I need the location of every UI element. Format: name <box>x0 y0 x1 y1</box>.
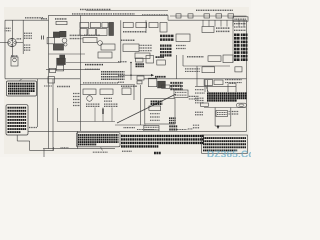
diode VD851 <box>204 14 210 18</box>
label N/C接地 <box>124 127 136 129</box>
block audio header <box>233 17 248 21</box>
wire <box>111 108 113 122</box>
label flyback pin <box>113 13 135 15</box>
label 主板线 <box>188 128 193 130</box>
callout3 dense note <box>207 92 247 94</box>
block dark4 <box>158 81 166 88</box>
block output pin list dark stack <box>234 33 248 36</box>
wire <box>43 149 45 157</box>
label 消亮点电路 <box>229 110 239 112</box>
comb pin strokes <box>202 20 204 26</box>
label 30 <box>118 81 124 83</box>
wire top-right bus <box>168 19 247 21</box>
scan interior tint <box>4 7 249 154</box>
transistor V201 <box>98 41 103 46</box>
callout1 box <box>6 81 36 96</box>
wire <box>30 150 54 152</box>
label flyback T444 <box>187 56 204 58</box>
block <box>172 85 181 89</box>
label C003 <box>29 127 38 129</box>
block integrator <box>136 58 144 62</box>
wire chroma section top <box>80 84 135 86</box>
label C004 values <box>24 32 32 34</box>
label <box>104 97 112 99</box>
block ABL <box>214 80 223 85</box>
capacitor C850 <box>188 14 193 18</box>
label switch transformer T001 <box>70 34 83 36</box>
block dark label <box>156 56 165 58</box>
wire <box>94 108 96 122</box>
ground <box>217 126 220 129</box>
capacitor C417 <box>137 81 142 84</box>
block snubber dark <box>53 32 59 38</box>
block S-correction <box>148 78 156 87</box>
callout2 dense text <box>8 107 27 109</box>
wire <box>76 131 78 148</box>
wire pointer <box>206 87 208 93</box>
block C416b <box>137 76 144 80</box>
block sync sep <box>149 22 158 27</box>
label pin column <box>73 93 80 95</box>
block tuner2 <box>80 29 87 36</box>
label 去偏转 <box>193 124 200 126</box>
label ~220V 50Hz <box>5 27 11 29</box>
block H-osc <box>160 22 167 32</box>
block delay line <box>135 53 150 59</box>
stack column gap <box>240 33 242 62</box>
block IF2 <box>88 29 95 36</box>
block C amp <box>100 89 113 95</box>
capacitor C006 <box>41 36 43 40</box>
block opto dark <box>53 44 63 50</box>
label 输入射频 <box>121 39 135 41</box>
wire supply chain <box>170 15 247 17</box>
label secondary switching supply <box>196 9 233 11</box>
block comb filter <box>123 44 139 52</box>
transistor V301 <box>87 96 93 102</box>
block N601 LA7840 dark <box>151 100 163 102</box>
wire inductor hook <box>53 147 55 151</box>
block video driver <box>101 44 115 50</box>
block IC001 error amp <box>47 38 55 44</box>
diode VD852 <box>216 14 222 18</box>
wire paragraphA pointer <box>101 147 103 151</box>
label left small <box>61 147 70 149</box>
block socket <box>201 103 209 106</box>
transistor V001 <box>62 38 67 43</box>
block SAW <box>102 22 108 27</box>
label <box>57 86 70 88</box>
label C005 values <box>24 44 31 46</box>
wire <box>196 66 198 86</box>
label video board <box>195 97 204 99</box>
label pins <box>145 126 159 128</box>
paragraphC box <box>202 135 248 153</box>
block dark2 <box>60 31 66 37</box>
wire <box>17 140 30 142</box>
wire <box>145 20 147 33</box>
block blanking <box>83 38 97 43</box>
wire vertical main left rail <box>48 15 50 131</box>
wire bottom border <box>28 130 247 132</box>
label <box>86 103 100 105</box>
wire long bottom bus <box>43 148 115 150</box>
block dark3 <box>60 55 65 61</box>
block CRT filament <box>216 111 228 117</box>
wire secondary bus <box>46 68 100 70</box>
wire <box>57 108 59 122</box>
wire <box>227 84 229 92</box>
wire rectified out <box>16 42 23 44</box>
block filter <box>57 65 64 71</box>
label <box>175 91 187 93</box>
block speech IC <box>174 90 188 98</box>
wire vertical rail x121 <box>120 20 122 62</box>
wire arrow line <box>124 74 151 76</box>
label <box>84 34 100 36</box>
label C304 <box>121 85 137 87</box>
block pin table <box>144 126 159 131</box>
wire <box>206 80 208 92</box>
wire ground bus <box>115 124 146 126</box>
label <box>177 129 187 131</box>
block dark text 积分 <box>136 63 145 65</box>
block CPU pins dark stack <box>160 45 172 47</box>
wire <box>52 79 54 151</box>
block AFT <box>136 22 147 27</box>
wire bottom bus <box>58 121 116 123</box>
capacitor C853 <box>228 14 234 18</box>
block <box>162 85 170 88</box>
block Y amp <box>83 89 96 95</box>
block dark stack <box>169 125 178 127</box>
callout2 box <box>6 105 28 135</box>
wire vertical rail x80 <box>79 15 81 131</box>
svg-text:DZ365.CoM: DZ365.CoM <box>207 150 251 158</box>
block video amp dark <box>109 22 114 35</box>
wire mains vertical <box>11 20 13 57</box>
block N601 vertical section <box>145 99 175 125</box>
label values <box>140 44 153 46</box>
block N401 vertical IC <box>170 82 183 84</box>
label deflection coil <box>185 68 200 70</box>
label 24V <box>41 18 47 20</box>
wire diagonal to CRT board <box>117 94 176 123</box>
label C004 <box>17 38 22 40</box>
wire <box>167 15 169 20</box>
wire <box>235 84 237 92</box>
label TDA8362N3 pin16 <box>72 13 112 15</box>
wire top border of power box <box>49 14 169 16</box>
label <box>44 85 52 87</box>
block degauss relay <box>202 27 214 33</box>
block <box>149 106 161 110</box>
label fuse <box>11 55 18 57</box>
label TDA8362N3 pin40 <box>142 14 168 16</box>
wire <box>22 20 24 54</box>
wire right border <box>246 20 248 131</box>
block video det <box>97 29 108 36</box>
block filter2 <box>157 60 166 65</box>
block EEPROM <box>176 34 190 42</box>
label pin40 <box>118 61 127 63</box>
label mid <box>123 31 146 33</box>
paragraphA box <box>76 133 120 147</box>
arrowhead <box>151 74 154 77</box>
block chroma <box>98 52 112 58</box>
label <box>104 103 118 105</box>
wire deflection bus <box>183 65 230 67</box>
label comps <box>150 113 160 115</box>
wire top-left bus <box>5 19 49 21</box>
label below A <box>93 151 108 153</box>
wire callout1 pointer <box>19 79 22 81</box>
label +B110V <box>195 89 204 91</box>
label header text <box>235 18 247 20</box>
block dark bits <box>169 117 176 119</box>
wire X-ray protect line <box>86 10 168 12</box>
block jungle dark rows <box>160 35 174 38</box>
label relay text <box>216 27 230 29</box>
wire long bus left part <box>5 78 80 80</box>
wire flyback rail <box>176 55 178 79</box>
bridge rectifier VD001-VD004 <box>8 38 17 47</box>
diode VD850 <box>176 14 181 18</box>
label regulator 稳压电源 <box>55 18 67 20</box>
block C008a <box>49 68 55 72</box>
wire long bus right part <box>144 78 247 80</box>
wire <box>215 125 231 127</box>
label <box>176 45 186 47</box>
block focus <box>223 55 233 63</box>
wire left border <box>4 20 6 78</box>
block AGC <box>123 22 133 27</box>
label <box>225 79 242 81</box>
block tuner <box>80 22 89 27</box>
block IF amp <box>90 22 100 27</box>
wire <box>29 141 31 151</box>
label +B 117V <box>85 64 103 66</box>
block flyback <box>208 56 221 62</box>
wire <box>130 63 132 81</box>
wire <box>204 80 206 92</box>
remote control pill <box>236 103 246 107</box>
wire <box>47 131 49 148</box>
block regulator sub <box>56 21 67 24</box>
paragraphB dense text <box>121 135 204 137</box>
label HEL LTV <box>85 68 100 70</box>
label speaker text <box>234 23 246 25</box>
wire <box>139 85 141 125</box>
label 尾板 <box>195 111 203 113</box>
wire callout pointer <box>16 135 18 141</box>
label L3060 degauss <box>25 17 43 19</box>
block rectifier dark <box>57 58 66 64</box>
wire +B rail <box>49 53 86 55</box>
block trap <box>146 56 154 64</box>
label field output <box>189 95 199 97</box>
label row <box>83 82 118 84</box>
label <box>137 129 154 131</box>
block pincushion <box>204 80 212 86</box>
label R501 <box>195 92 205 94</box>
wire stack left edge <box>232 21 234 62</box>
wire <box>214 108 216 127</box>
block C008 <box>48 77 55 83</box>
wire CRT board bus <box>204 107 246 109</box>
wire <box>230 108 232 127</box>
junction <box>130 62 132 64</box>
label 4.5MHz <box>229 82 237 84</box>
label 4.5 <box>118 75 124 77</box>
label N301 TDA8362N3 super chip <box>101 71 125 73</box>
wire +B 117V bus <box>66 62 121 64</box>
label 100V 200V <box>217 112 227 114</box>
block L402 yoke <box>202 67 215 73</box>
block C416 <box>235 67 242 72</box>
wire <box>37 79 39 127</box>
label below B <box>122 150 132 152</box>
paragraphC dense text <box>203 137 246 139</box>
fuse ICP001 <box>11 57 18 66</box>
label 1N4148 dark <box>155 76 166 78</box>
caption <box>154 152 161 155</box>
capacitor C310 <box>102 109 104 115</box>
wire mains in <box>0 42 8 44</box>
paragraphA dense text <box>78 134 119 136</box>
wire ABL line <box>195 85 236 87</box>
block 4.5M trap <box>122 88 131 95</box>
wire <box>133 85 135 100</box>
wire <box>102 108 104 122</box>
wire <box>182 55 184 66</box>
label X-ray protection <box>80 9 111 11</box>
callout1 dense text <box>8 83 35 85</box>
